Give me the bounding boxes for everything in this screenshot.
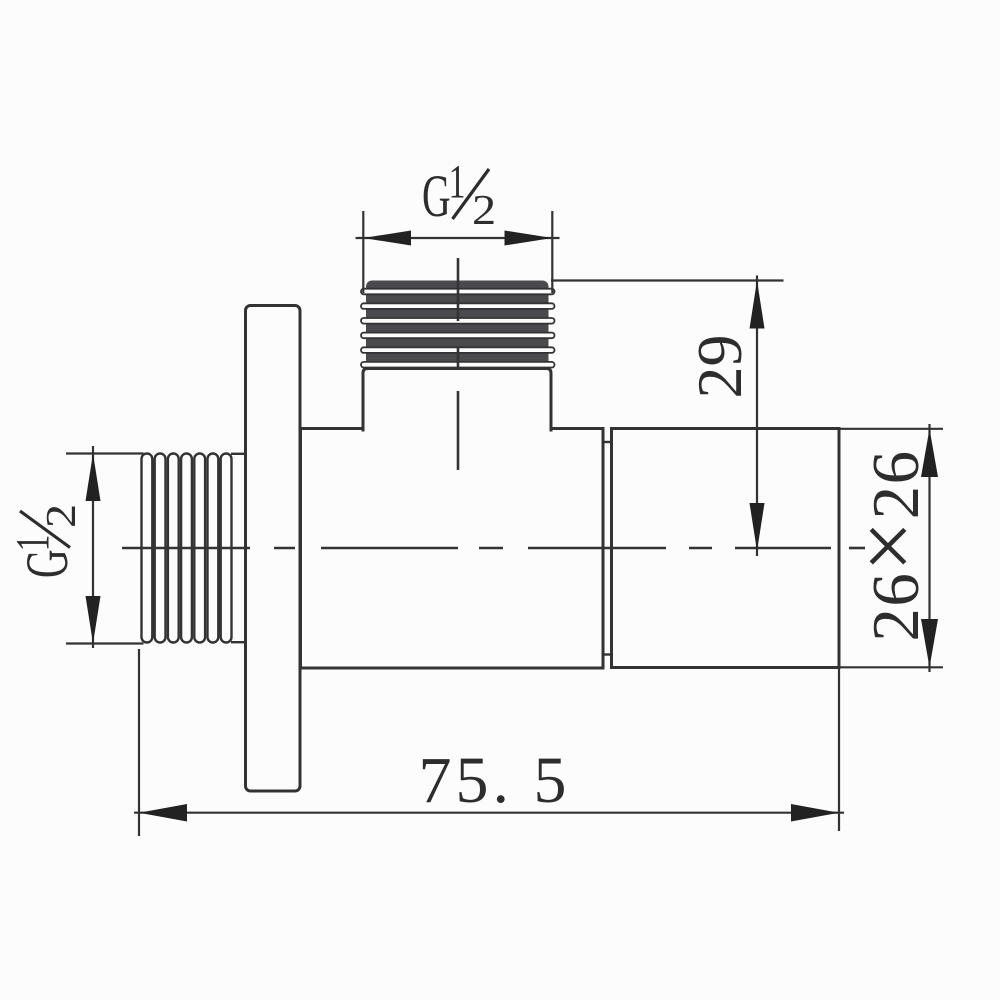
svg-text:2: 2 <box>472 187 496 233</box>
top outlet thread crest 2 <box>361 303 555 309</box>
svg-text:75. 5: 75. 5 <box>419 744 571 817</box>
handle right edge extension (75.5 right extension line) <box>838 668 840 832</box>
top outlet thread crest 4 <box>361 333 555 339</box>
top outlet thread crest 1 <box>361 289 555 295</box>
dimension 26x26: bottom arrowhead <box>921 619 938 667</box>
dimension G1/2 left: top extension line <box>66 452 144 454</box>
dimension 26x26: top extension line <box>839 428 943 430</box>
top outlet thread crest 6 <box>361 362 555 368</box>
valve main body <box>301 429 604 669</box>
dimension G1/2 top: right arrowhead <box>505 231 553 246</box>
top outlet neck <box>363 369 551 432</box>
dimension 26x26: bottom extension line <box>839 666 943 668</box>
left inlet thread coil 6 <box>208 454 219 643</box>
left inlet thread coil 4 <box>181 454 192 643</box>
dimension 29: dimension line <box>756 276 758 557</box>
handle block <box>612 429 840 668</box>
left inlet thread coil 3 <box>168 454 179 643</box>
svg-text:1: 1 <box>449 155 466 208</box>
left inlet thread coil 5 <box>194 454 205 643</box>
svg-text:2: 2 <box>38 504 84 528</box>
dimension 75.5: right arrowhead <box>791 804 839 822</box>
dimension G1/2 left: bottom arrowhead <box>86 596 101 644</box>
dimension 26x26: dimension line <box>928 424 930 672</box>
svg-text:29: 29 <box>684 335 755 399</box>
body-handle joint tick top <box>603 441 612 443</box>
dimension 29: top arrowhead <box>750 281 765 329</box>
svg-text:1: 1 <box>6 535 59 552</box>
dimension 75.5: left extension line <box>138 649 140 836</box>
dimension 29: bottom arrowhead <box>750 503 765 551</box>
dimension G1/2 top: left extension line <box>362 211 364 293</box>
horizontal centerline <box>122 547 865 550</box>
dimension G1/2 left: bottom extension line <box>66 642 144 644</box>
wall flange (rounded slab) <box>246 306 301 792</box>
top outlet thread body (dark band) <box>366 281 549 368</box>
dimension G1/2 left: dimension line <box>92 446 94 648</box>
vertical centerline <box>457 258 460 470</box>
left inlet shank top line <box>231 453 246 455</box>
left inlet shank bottom line <box>231 641 246 643</box>
dimension G1/2 left: top arrowhead <box>86 454 101 502</box>
label G1/2 left (rotated) <box>6 504 85 578</box>
dimension 29: top extension line <box>551 279 784 281</box>
dimension G1/2 top: dimension line <box>356 237 560 239</box>
svg-text:G: G <box>14 549 80 578</box>
left inlet thread coil 2 <box>155 454 166 643</box>
body-handle joint tick bottom <box>603 653 612 655</box>
label G1/2 top <box>422 155 496 234</box>
dimension G1/2 top: left arrowhead <box>363 231 411 246</box>
svg-text:G: G <box>422 163 451 229</box>
dimension 75.5: dimension line <box>134 812 844 814</box>
top outlet thread crest 3 <box>361 318 555 324</box>
top outlet thread crest 5 <box>361 347 555 353</box>
left inlet thread coil 7 <box>221 454 232 643</box>
dimension G1/2 top: right extension line <box>551 211 553 293</box>
dimension 75.5: left arrowhead <box>139 804 187 822</box>
left inlet thread coil 1 <box>142 454 153 643</box>
dimension 26x26: top arrowhead <box>921 429 938 477</box>
